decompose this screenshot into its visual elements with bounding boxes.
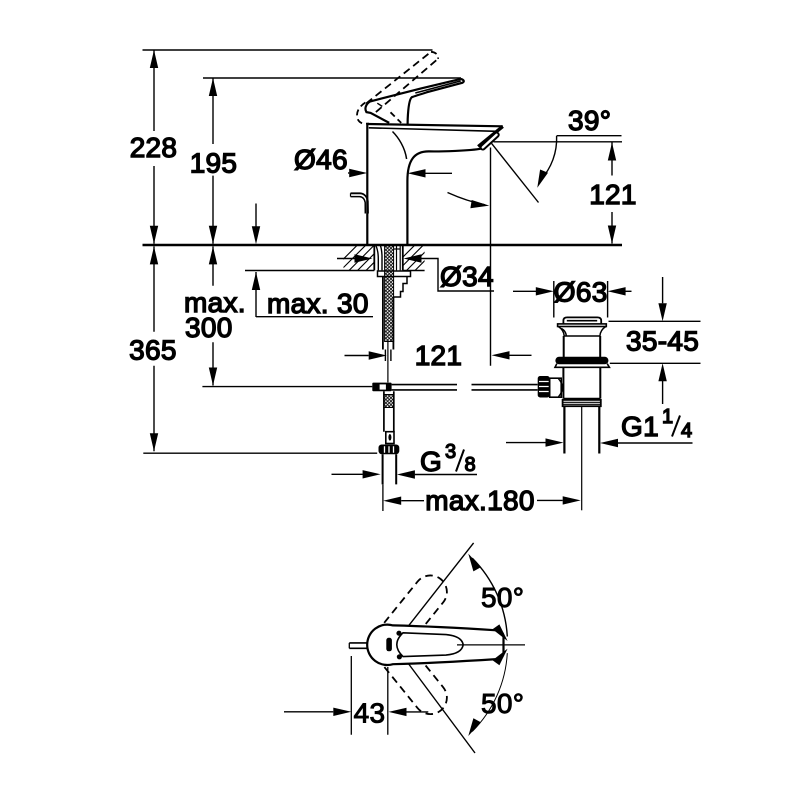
max30 underline [256,316,373,318]
svg-text:39°: 39° [568,105,611,136]
dimension 228 extension line [153,50,155,244]
handle blade inner line [415,81,461,93]
tube below tee with thread [384,391,394,431]
121 vertical dimension line [611,143,613,244]
svg-text:Ø46: Ø46 [294,144,348,175]
drain D63 extension lines [554,281,608,318]
D63 arrows [513,290,536,292]
escutcheon left wall below counter [373,245,375,270]
svg-text:50°: 50° [481,688,524,719]
escutcheon right wall below counter [402,245,404,270]
D34 right arrow and leader [404,254,422,262]
dimension max30 upper arrow above counter [255,204,257,228]
hose stub [385,350,391,362]
drain tailpipe walls [564,406,599,453]
spout end face [478,126,503,146]
top view handle dots [396,631,401,636]
water stream diagonal [492,143,539,202]
D46 left arrow [348,172,349,174]
spout underside curve [407,149,481,244]
svg-text:G: G [420,446,442,477]
dashed open handle rear edge [391,112,402,123]
drain linkage rod [392,385,457,390]
threaded shank [385,245,394,341]
dashed open handle line 2 [376,59,438,112]
dimension 228 arrowheads [150,50,158,244]
hose curve inside escutcheon [376,246,379,271]
drain plug cap [563,317,601,324]
handle knob front [365,102,389,123]
lower 50 degree diagonal [399,651,475,753]
365 reference line at hose end level [143,452,377,454]
faucet body left edge [366,125,368,245]
dimension max300 arrowheads [209,246,217,385]
D46 right arrow [426,172,453,174]
max180 left extension line [382,484,384,511]
inner blend curve of body [393,132,407,160]
drain body walls upper [564,336,601,357]
svg-text:195: 195 [190,148,238,179]
svg-text:121: 121 [589,179,637,210]
top view centerline [457,644,525,646]
slab bottom right segment [403,270,425,272]
svg-text:Ø63: Ø63 [554,277,608,308]
svg-text:50°: 50° [481,582,524,613]
svg-text:Ø34: Ø34 [440,261,494,292]
faucet spout deck lower line [369,128,497,132]
top view dashed handle rotated up [368,569,453,663]
top view handle inner contour [397,633,463,657]
121 horizontal left arrow [345,355,369,357]
svg-text:G1: G1 [621,411,659,442]
top view pull rod [349,643,367,648]
handle lever top edge [370,79,461,102]
svg-text:365: 365 [129,335,177,366]
svg-text:35-45: 35-45 [626,326,699,357]
top view solid handle outline [367,625,503,665]
check valve [386,432,394,444]
tee fitting [372,383,391,392]
dimension 365 arrowheads [150,246,158,451]
drain body bottom edge [563,398,600,400]
escutcheon inner lines right [397,246,401,271]
dimension 43 extension lines [351,656,388,735]
counter slab hatching right [390,245,441,270]
svg-text:8: 8 [465,454,476,476]
dashed open handle knob [357,103,369,124]
spout outlet horizontal extension line [494,141,623,143]
svg-text:max. 30: max. 30 [267,288,369,319]
svg-text:43: 43 [354,698,386,729]
handle lever tip [408,79,464,125]
drain pull rod on faucet [351,193,369,213]
drain o-ring [555,357,608,365]
39 degree angle arc with arrowhead [541,136,557,180]
drain knob neck [550,378,562,397]
dimension 195 extension line [212,78,214,244]
max180 dimension left arrow [401,500,424,502]
max180 dimension right arrow [537,499,563,501]
drain taper section [558,327,606,337]
drain knob ball joint [559,379,563,397]
flow direction leader arrow [448,193,486,205]
mounting cone steps [393,277,407,298]
drain seat flange [555,364,609,368]
spout outlet vertical extension line [490,148,492,366]
drain body walls lower [563,367,600,398]
top view dashed handle rotated down [368,627,453,721]
max300 reference line (hose going left) [202,386,372,388]
svg-text:228: 228 [130,132,178,163]
39 degree reference line [557,135,622,137]
dashed open handle line 1 [366,52,431,104]
upper 50 degree diagonal [399,543,474,638]
aerator capsule at spout tip [483,135,497,148]
G1 1/4 dimension arrows [506,442,546,444]
mounting washer [378,271,411,277]
handle knob detail line [377,103,382,106]
drain cap rim [558,324,607,327]
drain centerline [581,406,583,510]
121 horizontal right arrow [510,354,532,356]
svg-text:3: 3 [445,441,456,463]
supply hose left wall [382,277,384,350]
svg-text:1: 1 [662,406,673,428]
top view pivot black bar [386,638,392,652]
drain knob [538,376,550,398]
dimension max300 extension line [212,246,214,385]
dimension 195 reference line [203,77,461,79]
supply hose right wall [392,297,394,350]
D34 left arrow [337,258,355,260]
35-45 lower dimension [662,381,664,404]
upper 50 degree arc [472,558,507,636]
svg-text:121: 121 [415,340,463,371]
G3/8 connection tube [383,454,397,484]
svg-text:4: 4 [681,420,692,442]
dimension 195 arrowheads [209,78,217,244]
dimension 43 arrows [284,711,333,713]
counter slab hatching left [332,245,391,270]
faucet spout deck top line [367,124,503,126]
G3/8 dimension arrows [332,473,363,475]
hose center line [387,342,389,382]
dimension max30 vertical line and arrowhead [255,272,257,317]
svg-text:max.180: max.180 [425,485,535,516]
drain bottom collar [563,400,601,406]
dimension 228 top reference line [143,49,433,51]
lower 50 degree arc [472,653,507,731]
svg-text:300: 300 [185,312,233,343]
countertop line [143,244,623,246]
35-45 upper dimension [662,277,664,303]
dimension 365 extension line below counter [153,246,155,451]
max30 reference line (slab bottom left) [245,270,374,272]
dashed open handle tip arc [431,52,438,59]
G3/8 nut [379,445,400,455]
